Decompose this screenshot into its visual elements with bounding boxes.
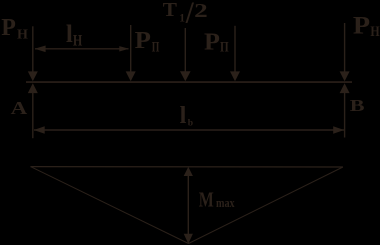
svg-text:P: P: [353, 11, 370, 40]
moment diagram left diagonal: [31, 167, 189, 244]
dimension arrow M_max: [184, 167, 193, 244]
svg-text:П: П: [152, 40, 160, 56]
svg-text:B: B: [350, 96, 365, 115]
label l_b: [180, 102, 194, 129]
reaction arrow A: [28, 83, 38, 138]
moment diagram right diagonal: [189, 167, 343, 244]
svg-text:l: l: [180, 102, 187, 129]
dimension arrow l_H: [35, 46, 129, 53]
svg-text:2: 2: [194, 0, 208, 22]
moment diagram top line: [31, 166, 343, 168]
reaction arrow B: [340, 83, 350, 137]
svg-text:l: l: [66, 21, 73, 48]
svg-text:max: max: [216, 196, 235, 210]
svg-text:Н: Н: [17, 28, 28, 43]
svg-text:A: A: [11, 98, 28, 118]
label l_H: [66, 21, 82, 50]
svg-text:/: /: [185, 0, 194, 29]
svg-text:P: P: [135, 27, 151, 54]
force arrow P_P second: [230, 26, 240, 82]
beam line: [26, 81, 352, 83]
force arrow T1/2 center: [180, 28, 191, 81]
label P_H left: [1, 14, 28, 42]
svg-text:П: П: [220, 40, 229, 56]
label P_P first: [135, 27, 160, 56]
svg-text:Н: Н: [370, 24, 379, 40]
svg-text:1: 1: [179, 13, 185, 25]
label P_P second: [204, 29, 229, 56]
label T1/2: [163, 0, 208, 29]
svg-text:T: T: [163, 0, 178, 21]
svg-text:P: P: [204, 29, 220, 56]
svg-text:Н: Н: [73, 33, 82, 50]
label P_H right: [353, 11, 380, 40]
dimension arrow l_b: [34, 126, 345, 133]
svg-text:b: b: [188, 118, 193, 129]
force arrow P_H right: [340, 23, 350, 81]
label M_max: [199, 188, 235, 212]
force arrow P_P first: [126, 25, 136, 81]
svg-text:P: P: [1, 14, 16, 41]
force arrow P_H left: [28, 26, 38, 81]
svg-text:M: M: [199, 188, 214, 212]
